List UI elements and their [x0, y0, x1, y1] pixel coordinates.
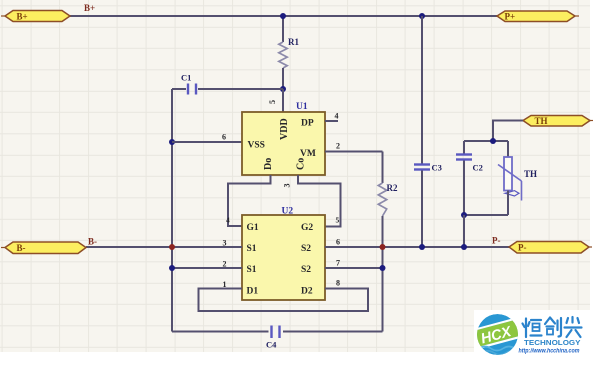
svg-text:TH: TH: [524, 169, 537, 179]
svg-text:TH: TH: [535, 116, 548, 126]
resistor R1: [279, 16, 300, 89]
svg-text:G2: G2: [301, 223, 313, 233]
svg-text:3: 3: [283, 184, 292, 188]
svg-text:C3: C3: [432, 163, 442, 173]
svg-text:U1: U1: [296, 102, 308, 112]
junction top rail / C3: [419, 13, 425, 19]
svg-text:R1: R1: [288, 37, 299, 47]
junction pin7 wire / R2 bus: [380, 265, 386, 271]
wire VM pin 2 to R2: [325, 151, 383, 153]
svg-text:6: 6: [222, 133, 226, 142]
capacitor C2: [456, 141, 483, 215]
wire Do to G1: [228, 175, 271, 226]
capacitor C3: [414, 16, 442, 247]
port B-: [1, 242, 86, 254]
svg-text:TECHNOLOGY: TECHNOLOGY: [524, 340, 581, 347]
svg-text:S2: S2: [301, 244, 311, 254]
wire S1 pin 2: [172, 267, 242, 269]
svg-text:S2: S2: [301, 265, 311, 275]
junction P- rail / C3: [419, 244, 425, 250]
resistor R2: [378, 152, 398, 332]
svg-text:DP: DP: [301, 119, 314, 129]
svg-text:Co: Co: [296, 158, 307, 170]
junction R1 bottom / C1 wire: [280, 86, 286, 92]
wire TH tab to node: [493, 121, 523, 142]
op-amp U1 (IC box): [242, 112, 325, 175]
logo white panel: [474, 310, 600, 375]
port B+: [1, 11, 70, 22]
capacitor C4: [172, 326, 383, 350]
transistor U2 (dual MOSFET box): [242, 215, 325, 300]
svg-text:3: 3: [223, 239, 227, 248]
svg-text:G1: G1: [247, 223, 259, 233]
svg-text:2: 2: [223, 260, 227, 269]
svg-text:B+: B+: [17, 12, 28, 22]
svg-text:B-: B-: [88, 237, 97, 247]
svg-text:R2: R2: [387, 183, 398, 193]
svg-text:http://www.hcchina.com: http://www.hcchina.com: [519, 348, 580, 355]
junction C2 bottom: [461, 212, 467, 218]
wire DP pin 4 stub: [325, 120, 338, 122]
svg-text:2: 2: [336, 142, 340, 151]
svg-text:B-: B-: [17, 243, 26, 253]
wire VDD pin 5: [282, 89, 284, 112]
thermistor TH: [498, 141, 537, 215]
svg-text:C2: C2: [473, 163, 483, 173]
svg-text:4: 4: [335, 112, 339, 121]
wire thermistor bottom to C2: [464, 214, 508, 216]
svg-text:D2: D2: [301, 287, 313, 297]
svg-text:Do: Do: [263, 158, 274, 170]
logo HCX circle: [471, 314, 525, 355]
svg-text:U2: U2: [282, 207, 294, 217]
svg-text:VSS: VSS: [248, 141, 265, 151]
wire D1-D2 loop: [199, 289, 369, 312]
svg-text:7: 7: [336, 259, 340, 268]
wire B- rail: [86, 246, 242, 248]
junction top rail / R1: [280, 13, 286, 19]
svg-text:P+: P+: [505, 12, 516, 22]
wire P- rail (S2 pin 6): [325, 246, 509, 248]
wire B+ top rail: [70, 15, 497, 17]
wire Co to G2: [298, 175, 341, 227]
junction TH node: [490, 138, 496, 144]
svg-text:C4: C4: [266, 340, 277, 350]
port TH: [523, 116, 593, 127]
svg-text:8: 8: [336, 279, 340, 288]
logo Chinese characters 恒创兴 (drawn strokes): [523, 317, 582, 337]
junction P- rail / R2 bus (red): [380, 244, 386, 250]
port P+: [497, 11, 579, 22]
svg-text:6: 6: [336, 238, 340, 247]
svg-text:D1: D1: [247, 287, 259, 297]
wire left vertical bus: [171, 89, 173, 332]
wire VSS pin 6: [172, 141, 242, 143]
white margin right: [590, 0, 600, 375]
wire node to C2/thermistor: [464, 140, 508, 142]
svg-text:5: 5: [336, 216, 340, 225]
svg-text:5: 5: [268, 100, 277, 104]
junction P- rail / C2: [461, 244, 467, 250]
wire S2 pin 7: [325, 267, 383, 269]
white margin bottom: [0, 352, 600, 375]
junction B- rail / left bus (red): [169, 244, 175, 250]
svg-text:VM: VM: [300, 149, 316, 159]
svg-text:4: 4: [226, 216, 230, 225]
svg-text:P-: P-: [492, 236, 501, 246]
junction VSS wire: [169, 139, 175, 145]
wire C2 to P- rail: [463, 215, 465, 247]
junction pin2 wire / left bus: [169, 265, 175, 271]
svg-text:P-: P-: [518, 243, 527, 253]
svg-text:S1: S1: [247, 244, 257, 254]
svg-text:VDD: VDD: [279, 118, 290, 140]
svg-text:1: 1: [223, 280, 227, 289]
svg-text:B+: B+: [84, 3, 95, 13]
port P-: [509, 242, 592, 254]
capacitor C1: [172, 73, 283, 95]
svg-text:S1: S1: [247, 265, 257, 275]
svg-text:C1: C1: [181, 73, 191, 83]
